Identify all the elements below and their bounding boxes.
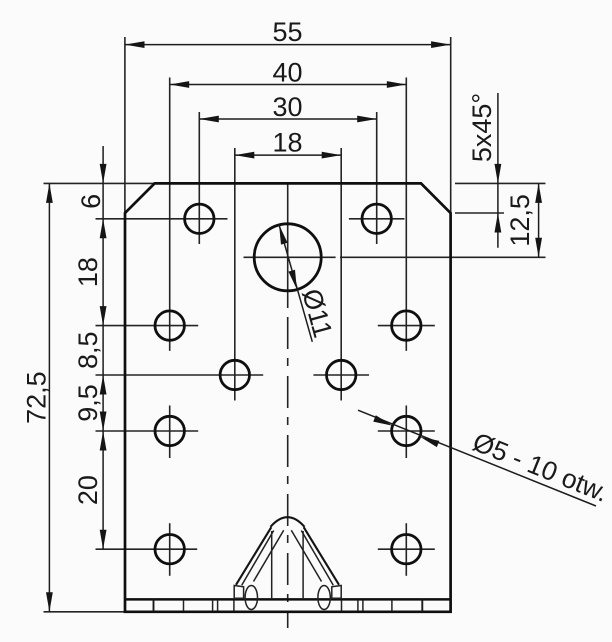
strip divider right [421, 599, 423, 611]
strip tick a [183, 600, 185, 611]
arrow chain row4 up [100, 431, 107, 451]
wire: row3 extension line left [96, 374, 264, 376]
dim chain line left [102, 146, 104, 549]
tooth outer slant right [304, 527, 339, 585]
tooth foot tick right [341, 601, 343, 611]
hole row3 left [220, 360, 249, 389]
small holes r=14.7 [155, 204, 421, 564]
arrow 55 right [431, 41, 451, 48]
wire: row2 extension line left [96, 325, 199, 327]
hole row5 left [155, 535, 184, 564]
plate outline [125, 183, 451, 611]
wire: row4 right hole horizontal centerline [378, 430, 435, 432]
dim line 5x45 [497, 93, 499, 248]
wire: hole column x=376.7 (30mm) right [376, 112, 378, 244]
wire: plate vertical centerline dashed [287, 317, 289, 628]
tooth outer slant left [236, 527, 271, 585]
tooth second slant right [301, 531, 333, 586]
wire: chamfer bottom extension right [455, 212, 504, 214]
dim line 12,5 [538, 183, 540, 257]
hole row2 right [392, 311, 421, 340]
tooth dome arc [271, 517, 305, 527]
arrow Ø5 left [373, 415, 394, 429]
hole row4 right [392, 416, 421, 445]
wire: big hole horizontal centerline [244, 256, 336, 258]
dimension lines [49, 45, 596, 612]
wire: big hole vertical centerline [287, 184, 289, 308]
arrow 5x45 bottom [495, 213, 502, 233]
hole row1 right [362, 204, 391, 233]
thin extension and center lines [44, 37, 546, 628]
wire: row3 right hole horizontal centerline [313, 374, 369, 376]
svg-text:9,5: 9,5 [73, 384, 103, 422]
arrow 40 right [387, 81, 407, 88]
tooth vertical left [271, 531, 273, 598]
leader line Ø11 [279, 225, 312, 342]
wire: top edge extension to left dims [44, 182, 155, 184]
hole row4 left [155, 416, 184, 445]
wire: row4 right hole vertical centerline [405, 406, 407, 459]
wire: hole column x=199.3 (30mm) left [198, 112, 200, 244]
svg-text:12,5: 12,5 [505, 194, 535, 247]
wire: hole column x=234.8 (18mm) left [234, 148, 236, 401]
dim line 72,5 [48, 183, 50, 611]
svg-text:30: 30 [272, 92, 302, 122]
arrow chain row1 [100, 219, 107, 239]
strip tick c2 [362, 600, 364, 611]
wire: big hole centerline extension right for 12,5 [340, 256, 546, 258]
strip divider left [153, 599, 155, 611]
arrow 40 left [170, 81, 190, 88]
wire: row5 left hole vertical centerline [169, 523, 171, 576]
arrow Ø11 lower [288, 270, 300, 291]
arrow 72,5 bottom [46, 592, 53, 612]
hole row3 right [327, 360, 356, 389]
arrowheads [46, 41, 542, 612]
strip tick b1 [212, 600, 214, 611]
dimension texts [22, 17, 612, 508]
tooth vertical right [302, 531, 304, 598]
wire: hole column x=406.3 (40mm) right upper [405, 78, 407, 351]
big hole Ø11 [254, 224, 321, 291]
arrow chain row2 [100, 306, 107, 326]
wire: top edge extension right [455, 182, 546, 184]
arrow 12,5 bottom [535, 238, 542, 258]
arrow Ø5 right [419, 434, 440, 448]
tooth foot tick left [233, 601, 235, 611]
hole row2 left [155, 311, 184, 340]
wire: row4 left hole vertical centerline [169, 406, 171, 459]
hole row5 right [392, 535, 421, 564]
flange strip dividers [154, 599, 423, 611]
wire: row5 right hole vertical centerline [405, 523, 407, 576]
arrow Ø11 upper [276, 224, 288, 245]
arrow 18 right [322, 152, 342, 159]
tooth second slant left [242, 531, 274, 586]
wire: hole column x=169.7 (40mm) left upper [169, 78, 171, 351]
wire: bottom extension line left [44, 611, 126, 613]
arrow chain row4 down [100, 412, 107, 432]
svg-text:18: 18 [272, 127, 302, 157]
wire: row5 extension line left [96, 548, 198, 550]
svg-text:55: 55 [272, 17, 302, 47]
svg-text:8,5: 8,5 [73, 331, 103, 369]
wire: row2 right hole horizontal centerline [378, 325, 435, 327]
leader line Ø5 [358, 410, 596, 506]
svg-text:20: 20 [73, 475, 103, 505]
tooth inner slant right [291, 530, 321, 581]
tooth foot ellipse left [245, 586, 257, 610]
wire: left edge extension up for dim 55 [124, 37, 126, 213]
wire: right edge extension up for dim 55 [450, 37, 452, 213]
arrow 18 left [235, 152, 255, 159]
dim line 40 [170, 84, 407, 86]
tooth foot ellipse right [318, 586, 330, 610]
dim line 30 [199, 118, 376, 120]
arrow 30 left [199, 116, 219, 123]
arrow chain row3 [100, 375, 107, 395]
strip tick b2 [217, 600, 219, 611]
wire: row4 extension line left [96, 430, 199, 432]
bottom face edge [125, 598, 451, 601]
tooth foot quad right [332, 586, 341, 599]
wire: row1 extension line left [96, 218, 228, 220]
arrow chain row5 [100, 530, 107, 550]
arrow 12,5 top [535, 183, 542, 203]
strip tick c1 [357, 600, 359, 611]
tooth foot quad left [234, 586, 243, 599]
arrow chain top edge [100, 164, 107, 184]
svg-text:6: 6 [76, 194, 106, 209]
wire: hole column x=341.2 (18mm) right [340, 148, 342, 401]
dim line 55 [125, 44, 451, 46]
svg-text:72,5: 72,5 [22, 371, 52, 424]
tooth inner slant left [254, 530, 284, 581]
wire: row5 right hole horizontal centerline [378, 548, 435, 550]
arrow 5x45 top [495, 164, 502, 184]
embossed tooth feature [236, 517, 339, 585]
svg-text:18: 18 [73, 257, 103, 287]
svg-text:40: 40 [272, 58, 302, 88]
arrow 30 right [357, 116, 377, 123]
arrow 72,5 top [46, 183, 53, 203]
dim line 18 [235, 154, 341, 156]
hole row1 left [185, 204, 214, 233]
svg-text:5x45°: 5x45° [467, 93, 497, 162]
wire: row1 right hole horizontal centerline [349, 218, 405, 220]
strip tick d [391, 600, 393, 611]
arrow 55 left [125, 41, 145, 48]
